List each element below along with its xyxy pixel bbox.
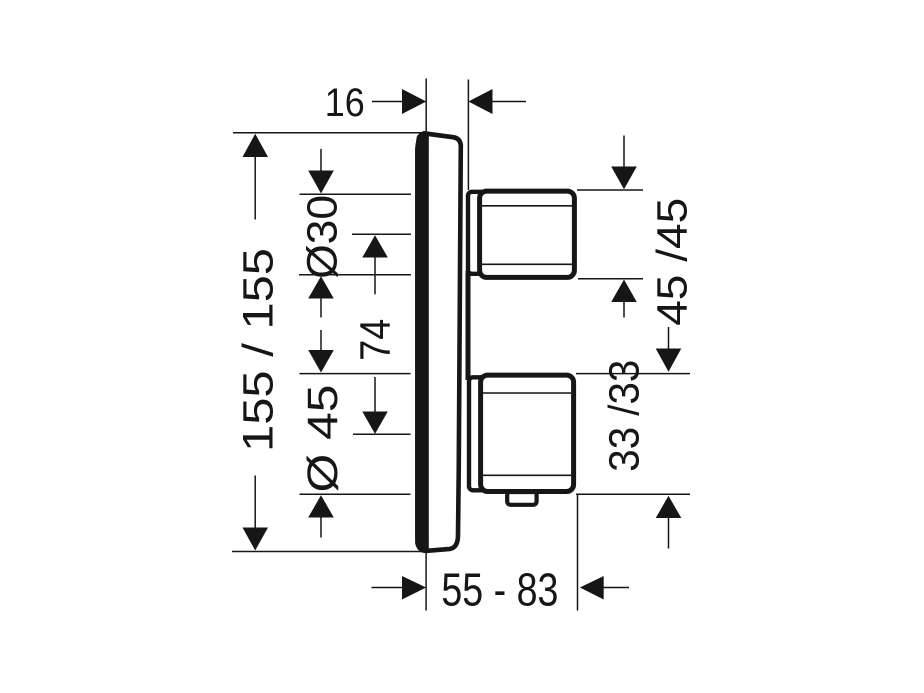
svg-text:55 - 83: 55 - 83 xyxy=(441,564,558,616)
svg-text:155 / 155: 155 / 155 xyxy=(235,248,283,452)
svg-text:Ø 45: Ø 45 xyxy=(299,385,347,493)
svg-text:74: 74 xyxy=(351,319,399,361)
svg-text:Ø30: Ø30 xyxy=(298,195,346,279)
svg-text:45 /45: 45 /45 xyxy=(648,198,696,326)
svg-text:16: 16 xyxy=(325,81,365,125)
svg-text:33 /33: 33 /33 xyxy=(600,360,648,472)
